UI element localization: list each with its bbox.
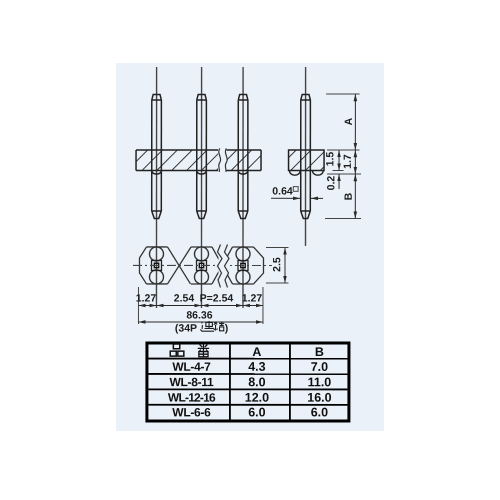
cell 1 circles <box>149 247 163 261</box>
cell 2 center square <box>196 260 206 270</box>
centerline pin 1 <box>155 67 157 308</box>
centerline pin 3 <box>242 67 244 308</box>
svg-text:0.64: 0.64 <box>272 186 293 198</box>
dim 1.27 right <box>243 304 263 306</box>
svg-text:P=2.54: P=2.54 <box>200 292 234 304</box>
dim 2.54 <box>156 304 201 306</box>
table col line 1 <box>229 344 231 419</box>
ext line pin bottom <box>325 218 361 220</box>
pin 4 housing feet arcs <box>290 171 301 175</box>
pin 2 body <box>197 94 207 218</box>
centerline pin 4 <box>305 67 307 246</box>
break zigzag left <box>217 244 222 287</box>
svg-text:16.0: 16.0 <box>307 391 331 405</box>
svg-text:86.36: 86.36 <box>186 309 212 321</box>
centerline pin 2 <box>200 67 202 308</box>
svg-text:1.5: 1.5 <box>324 152 336 167</box>
svg-text:(34P: (34P <box>175 322 197 334</box>
svg-text:WL-12-16: WL-12-16 <box>168 391 216 405</box>
pin 4 body <box>301 95 311 219</box>
svg-text:A: A <box>252 345 261 359</box>
pin 3 body <box>238 94 248 218</box>
leader left of pin 4 <box>271 197 300 199</box>
svg-text:7.0: 7.0 <box>311 360 328 374</box>
break squiggle left <box>219 148 221 172</box>
table row line 4 <box>148 404 347 406</box>
break squiggle right <box>225 148 227 172</box>
svg-text:4.3: 4.3 <box>248 360 265 374</box>
octagon cell 3 <box>233 246 254 248</box>
svg-text:1.7: 1.7 <box>342 154 354 169</box>
svg-text:WL-6-6: WL-6-6 <box>172 405 211 419</box>
svg-text:0.2: 0.2 <box>325 176 337 191</box>
svg-text:2.5: 2.5 <box>271 257 283 272</box>
ext line housing top <box>327 149 360 151</box>
svg-text:B: B <box>343 192 355 200</box>
dim 86.36 <box>138 321 263 323</box>
horizontal centerline of row <box>133 264 272 266</box>
dim 0.2 lower arrow <box>338 174 340 189</box>
ext line feet bottom <box>327 173 361 175</box>
cell 3 center square <box>238 260 248 270</box>
octagon cell 1 <box>147 246 168 248</box>
dim 1.5 <box>338 150 340 171</box>
ext line housing bottom <box>333 170 344 172</box>
svg-text:1.27: 1.27 <box>136 292 157 304</box>
dim B <box>354 174 356 219</box>
svg-text:): ) <box>225 322 229 334</box>
dim 2.5 <box>284 248 286 283</box>
table row line 2 <box>148 373 347 375</box>
octagon row break gap <box>218 243 227 288</box>
table outer border <box>147 343 349 421</box>
ext line row bottom <box>266 282 289 284</box>
octagon cell 2 <box>191 246 212 248</box>
svg-text:1.27: 1.27 <box>242 292 263 304</box>
ext line pin top <box>326 93 360 95</box>
svg-text:WL-8-11: WL-8-11 <box>169 375 214 389</box>
svg-text:A: A <box>343 117 355 125</box>
break zigzag right <box>224 244 229 287</box>
dim P=2.54 <box>201 304 243 306</box>
cell 2 circles <box>194 247 208 261</box>
housing bar right for pin 4 (hatched) <box>289 150 325 171</box>
table row line header <box>148 358 347 360</box>
dim 1.27 left <box>138 304 156 306</box>
housing bar break gap <box>218 147 227 173</box>
svg-text:WL-4-7: WL-4-7 <box>172 360 211 374</box>
dim A <box>354 94 356 150</box>
table col line 2 <box>289 345 291 420</box>
panel background <box>116 63 384 431</box>
svg-text:8.0: 8.0 <box>248 375 265 389</box>
junction X cells 2-3 <box>212 247 233 284</box>
svg-text:2.54: 2.54 <box>174 292 195 304</box>
table row line 3 <box>148 388 347 390</box>
header kanji ban <box>198 344 209 357</box>
leader right of pin 4 <box>311 197 323 199</box>
pin 1 body <box>152 94 162 218</box>
svg-text:11.0: 11.0 <box>308 375 332 389</box>
svg-text:6.0: 6.0 <box>311 405 328 419</box>
junction X cells 1-2 <box>167 247 190 284</box>
cell 3 circles <box>236 247 250 261</box>
svg-text:6.0: 6.0 <box>248 405 265 419</box>
header kanji hin <box>170 344 184 356</box>
kanji ketsu <box>214 321 225 330</box>
ext line row top <box>266 247 289 249</box>
ext line row right <box>262 287 264 324</box>
cell 1 center square <box>151 260 161 270</box>
housing bar left (hatched) <box>136 150 261 171</box>
ext line row left <box>137 287 139 324</box>
svg-text:12.0: 12.0 <box>245 391 269 405</box>
dim 1.7 <box>354 150 356 174</box>
svg-text:B: B <box>315 345 324 359</box>
kanji ren <box>200 321 214 331</box>
